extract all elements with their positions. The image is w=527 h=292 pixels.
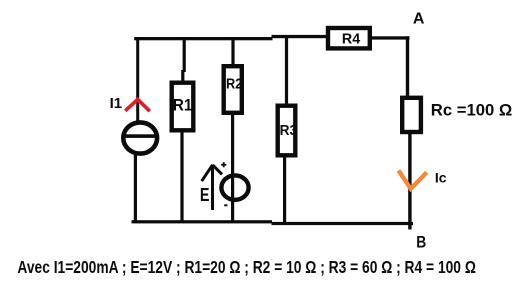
wire node A corner down to Rc (406, 36, 409, 98)
svg-text:R2: R2 (226, 75, 242, 92)
wire R2 branch top (231, 37, 234, 67)
current source I1 bar (123, 134, 158, 138)
wire I1 branch top (136, 37, 139, 122)
wire R3 branch bottom (283, 155, 286, 223)
wire top bus right segment (272, 35, 329, 38)
voltage source E circle (221, 175, 248, 199)
wire bottom bus right segment (272, 222, 414, 225)
svg-text:Rc =100 Ω: Rc =100 Ω (431, 101, 513, 120)
resistor R4 (328, 28, 370, 48)
arrow Ic current direction (orange chevron down) (399, 171, 427, 189)
svg-text:Avec I1=200mA ; E=12V ; R1=20: Avec I1=200mA ; E=12V ; R1=20 Ω ; R2 = 1… (17, 257, 476, 277)
svg-text:R4: R4 (342, 32, 360, 48)
svg-text:R1: R1 (173, 97, 193, 115)
current source I1 circle (123, 122, 157, 153)
wire top bus left segment (134, 37, 272, 40)
wire Rc branch bottom (408, 132, 411, 230)
svg-text:E: E (200, 185, 210, 205)
wire I1 branch bottom (134, 155, 137, 222)
svg-text:B: B (416, 234, 426, 252)
arrow I1 current direction (red chevron up) (125, 99, 150, 111)
svg-text:I1: I1 (110, 95, 123, 112)
svg-text:A: A (413, 10, 425, 27)
label - polarity (224, 204, 227, 206)
wire R1 branch top lower segment (181, 70, 184, 83)
wire R1 branch bottom (180, 130, 183, 222)
resistor R3 (278, 106, 296, 156)
resistor R2 (224, 66, 242, 113)
wire R4 output to node A (370, 36, 410, 39)
svg-text:R3: R3 (280, 122, 298, 139)
wire bottom bus left segment (132, 220, 273, 223)
wire R2/E branch bottom (231, 112, 234, 223)
wire R1 branch top upper segment (183, 37, 186, 72)
svg-text:Ic: Ic (435, 170, 447, 186)
wire R3 branch top (285, 37, 288, 106)
label + polarity (221, 164, 226, 166)
arrow E polarity (up arrow) (202, 165, 222, 211)
resistor R1 (172, 83, 194, 131)
resistor Rc (402, 98, 421, 132)
